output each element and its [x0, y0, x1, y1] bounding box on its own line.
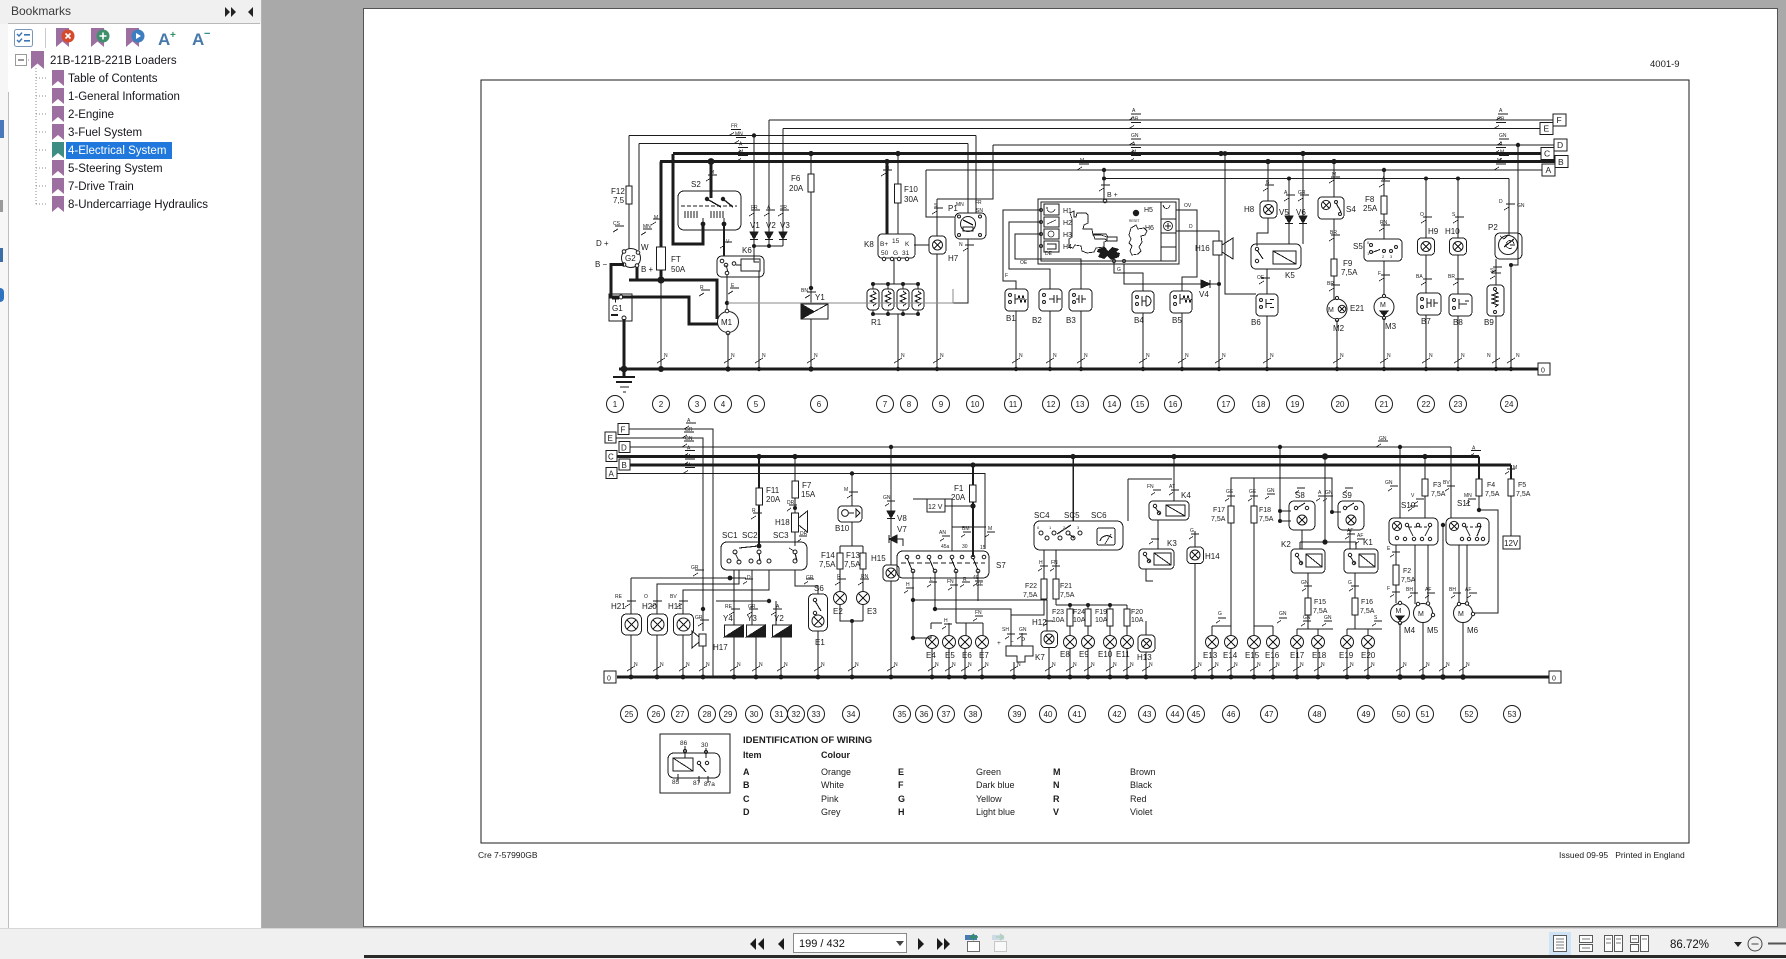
svg-text:SC2: SC2 — [742, 531, 758, 540]
svg-text:Light blue: Light blue — [976, 807, 1015, 817]
fuse F12 — [626, 136, 632, 248]
svg-text:GR: GR — [685, 427, 693, 433]
wire S7 output fan — [904, 571, 1047, 646]
svg-text:7,5A: 7,5A — [1516, 491, 1531, 498]
svg-text:F3: F3 — [1433, 482, 1441, 489]
svg-text:5: 5 — [754, 400, 759, 409]
vertical wire P1 feed from bus MN — [967, 144, 969, 214]
diode V7 — [889, 535, 903, 565]
svg-text:7,5A: 7,5A — [1485, 491, 1500, 498]
fuse F7 15A — [792, 457, 799, 514]
svg-text:B4: B4 — [1134, 316, 1144, 325]
svg-text:Y4: Y4 — [723, 614, 733, 623]
svg-text:8: 8 — [907, 400, 912, 409]
svg-text:GN: GN — [1385, 480, 1393, 486]
svg-text:A: A — [1546, 165, 1552, 175]
svg-text:M: M — [686, 463, 690, 469]
svg-text:M: M — [1080, 158, 1084, 164]
wire code ticks lower buses — [682, 423, 1481, 474]
svg-text:K3: K3 — [1167, 539, 1177, 548]
svg-text:R: R — [1053, 794, 1060, 804]
horn H16 — [1213, 238, 1233, 284]
lamp E3 — [852, 592, 870, 678]
svg-text:V4: V4 — [1199, 290, 1209, 299]
svg-text:20: 20 — [1336, 400, 1345, 409]
svg-text:G: G — [1348, 580, 1352, 586]
svg-text:51: 51 — [1421, 710, 1430, 719]
vertical wire bus A drop to P1 — [926, 170, 955, 217]
svg-text:7,5A: 7,5A — [1431, 491, 1446, 498]
svg-text:FN: FN — [975, 610, 982, 616]
svg-text:GR: GR — [748, 604, 756, 610]
switch S9 — [1338, 488, 1364, 530]
svg-text:2-Engine: 2-Engine — [68, 109, 114, 121]
svg-text:86: 86 — [680, 740, 688, 747]
junction dots lower buses — [756, 445, 1427, 476]
svg-text:6: 6 — [817, 400, 822, 409]
lamp H10 — [1450, 179, 1467, 295]
bus terminator box E (lower) — [605, 432, 616, 443]
svg-text:MN: MN — [643, 224, 651, 230]
svg-text:N: N — [1149, 662, 1153, 668]
wire cluster to B3 — [1015, 234, 1081, 289]
svg-text:K5: K5 — [1285, 271, 1295, 280]
svg-text:L: L — [1010, 637, 1014, 644]
svg-text:Issued 09-95 Printed in Engl: Issued 09-95 Printed in England — [1559, 850, 1685, 860]
sender B9 — [1487, 273, 1504, 369]
svg-text:GN: GN — [1019, 627, 1027, 633]
fuse F6 20A — [808, 154, 814, 305]
svg-text:RE: RE — [725, 604, 733, 610]
svg-text:2: 2 — [659, 400, 664, 409]
svg-text:GR: GR — [1298, 190, 1306, 196]
svg-text:M: M — [1497, 158, 1501, 164]
svg-text:V5: V5 — [1279, 208, 1289, 217]
svg-text:E20: E20 — [1361, 651, 1376, 660]
svg-text:DR: DR — [787, 500, 795, 506]
wire S7 terminal bracket — [913, 499, 995, 551]
wire K6 coil to ground bus — [758, 271, 760, 369]
fuse F13 7,5A — [858, 546, 869, 591]
svg-text:F14: F14 — [821, 551, 835, 560]
wire E4-E7 feeder — [925, 616, 983, 638]
svg-text:41: 41 — [1073, 710, 1082, 719]
wire accessory feed sub-bus — [1104, 178, 1509, 180]
svg-text:M6: M6 — [1467, 626, 1479, 635]
svg-text:F10: F10 — [904, 185, 918, 194]
svg-text:7,5A: 7,5A — [844, 560, 861, 569]
svg-text:M: M — [1132, 150, 1136, 156]
svg-text:Colour: Colour — [821, 750, 850, 760]
svg-text:20A: 20A — [789, 184, 804, 193]
vertical wire bus D right drop — [992, 145, 994, 199]
svg-text:24: 24 — [1505, 400, 1514, 409]
svg-text:FN: FN — [947, 579, 954, 585]
svg-text:F1: F1 — [954, 484, 964, 493]
svg-text:33: 33 — [812, 710, 821, 719]
svg-text:F20: F20 — [1131, 609, 1143, 616]
svg-text:K1: K1 — [1363, 538, 1373, 547]
svg-text:N: N — [1321, 662, 1325, 668]
svg-text:H18: H18 — [775, 518, 790, 527]
lamp H20 — [648, 601, 668, 677]
fuse F15 7,5A — [1302, 573, 1312, 629]
svg-text:E: E — [1544, 124, 1550, 134]
lamp H9 — [1418, 179, 1435, 294]
svg-text:43: 43 — [1143, 710, 1152, 719]
svg-text:GN: GN — [883, 495, 891, 501]
svg-text:F2: F2 — [1403, 568, 1411, 575]
svg-text:DR: DR — [800, 531, 808, 537]
sender B6 — [1256, 294, 1278, 369]
svg-text:N: N — [1487, 353, 1491, 359]
svg-text:N: N — [1340, 353, 1344, 359]
svg-text:C: C — [608, 453, 614, 462]
svg-text:GN: GN — [1303, 615, 1311, 621]
lamp E8 — [1064, 636, 1077, 678]
svg-text:46: 46 — [1227, 710, 1236, 719]
svg-text:E8: E8 — [1060, 650, 1070, 659]
wire cluster to B4 — [1114, 262, 1143, 291]
fuse F22 7,5A — [1011, 550, 1048, 629]
svg-text:44: 44 — [1171, 710, 1180, 719]
gauge module P1 — [953, 213, 986, 303]
svg-text:N: N — [1198, 662, 1202, 668]
svg-text:O: O — [1420, 212, 1424, 218]
svg-text:GN: GN — [1301, 580, 1309, 586]
diode V5 — [1284, 179, 1295, 245]
svg-text:B +: B + — [641, 265, 654, 274]
svg-text:B2: B2 — [1032, 316, 1042, 325]
svg-text:K4: K4 — [1181, 491, 1191, 500]
svg-text:D: D — [743, 807, 750, 817]
svg-text:27: 27 — [676, 710, 685, 719]
connector K7 — [1005, 629, 1033, 677]
bus terminator box D — [1554, 139, 1567, 151]
svg-text:N: N — [737, 662, 741, 668]
lower bus terminator box 0 (left) — [604, 671, 616, 683]
wire thick B+ collector — [629, 267, 717, 319]
tree — [0, 50, 262, 220]
wire S2 left return to bus C (thick) — [673, 154, 703, 244]
svg-text:AF: AF — [1425, 587, 1431, 593]
svg-text:N: N — [1257, 662, 1261, 668]
glow plug unit S2 — [678, 191, 741, 230]
svg-text:V3: V3 — [780, 221, 790, 230]
lamp E5 — [943, 636, 956, 678]
svg-text:FT: FT — [671, 255, 681, 264]
fuse F5 7,5A — [1505, 465, 1515, 536]
svg-text:1: 1 — [613, 400, 618, 409]
wire bus B (lower, thick) — [630, 464, 1511, 467]
svg-text:10A: 10A — [1131, 617, 1144, 624]
svg-text:E5: E5 — [945, 651, 955, 660]
svg-text:5-Steering System: 5-Steering System — [68, 163, 163, 175]
svg-text:H21: H21 — [611, 602, 626, 611]
bookmarks sidebar — [0, 0, 262, 928]
svg-text:11: 11 — [1009, 400, 1018, 409]
svg-text:H: H — [944, 618, 948, 624]
motor M2 with lamp E21 — [1327, 296, 1347, 369]
bus terminator box B — [1555, 156, 1568, 168]
svg-text:N: N — [634, 662, 638, 668]
svg-text:M5: M5 — [1427, 626, 1439, 635]
svg-text:F11: F11 — [766, 486, 780, 495]
bus terminator box C (lower) — [606, 451, 617, 462]
svg-text:87a: 87a — [704, 781, 715, 788]
svg-text:BH: BH — [1449, 587, 1456, 593]
svg-text:GN: GN — [1499, 133, 1507, 139]
svg-text:85: 85 — [672, 779, 680, 786]
lamp H8 — [1257, 162, 1277, 247]
svg-text:H: H — [1039, 560, 1043, 566]
svg-text:SC5: SC5 — [1064, 511, 1080, 520]
solenoid Y3 — [747, 570, 766, 677]
toolbar — [0, 24, 262, 52]
svg-text:AF: AF — [1465, 587, 1471, 593]
circuit number circles 1-24 — [607, 396, 1518, 413]
fuse F20 10A — [1124, 609, 1130, 636]
wire bus E — [783, 128, 1540, 130]
svg-text:F: F — [1005, 273, 1008, 279]
svg-text:N: N — [1461, 353, 1465, 359]
svg-text:N: N — [731, 353, 735, 359]
svg-text:H8: H8 — [1244, 205, 1255, 214]
svg-text:H10: H10 — [1445, 227, 1460, 236]
svg-text:A: A — [1499, 108, 1503, 114]
relay K3 — [1139, 520, 1174, 581]
relay K6 — [717, 256, 764, 277]
svg-text:E7: E7 — [979, 651, 989, 660]
svg-text:V: V — [1053, 807, 1059, 817]
alternator G2 — [613, 144, 652, 268]
svg-text:AF: AF — [1357, 533, 1363, 539]
svg-text:23: 23 — [1454, 400, 1463, 409]
svg-text:M2: M2 — [1333, 324, 1345, 333]
svg-text:26: 26 — [652, 710, 661, 719]
svg-text:7-Drive Train: 7-Drive Train — [68, 181, 134, 193]
wire S2 right to K6 — [723, 225, 725, 256]
svg-text:1-General Information: 1-General Information — [68, 91, 180, 103]
svg-text:SL: SL — [1490, 268, 1496, 274]
svg-text:SR: SR — [780, 205, 787, 211]
svg-text:N: N — [1017, 662, 1021, 668]
svg-text:F: F — [898, 780, 904, 790]
svg-text:45a: 45a — [941, 544, 950, 550]
lamp E4 — [926, 636, 939, 678]
lamp H12 — [1041, 621, 1058, 677]
wire S2 feed (thick) — [710, 162, 713, 199]
svg-text:7: 7 — [883, 400, 888, 409]
svg-text:B +: B + — [1107, 192, 1118, 199]
svg-text:K7: K7 — [1035, 653, 1045, 662]
svg-text:N: N — [1222, 353, 1226, 359]
svg-text:M: M — [1513, 465, 1517, 471]
svg-text:H16: H16 — [1195, 244, 1210, 253]
sender B3 — [1069, 289, 1092, 369]
svg-text:N: N — [1053, 353, 1057, 359]
svg-text:BR: BR — [1327, 281, 1334, 287]
fuse F9 7,5A — [1329, 259, 1340, 299]
sender B8 — [1449, 294, 1472, 369]
svg-text:E: E — [608, 434, 613, 443]
svg-text:MN: MN — [735, 132, 743, 138]
svg-text:BN: BN — [801, 288, 808, 294]
svg-text:M: M — [1458, 611, 1464, 618]
svg-text:7,5A: 7,5A — [1401, 577, 1416, 584]
svg-text:B3: B3 — [1066, 316, 1076, 325]
svg-text:G: G — [1190, 528, 1194, 534]
fuse F19 10A — [1107, 609, 1113, 636]
solenoid Y4 — [725, 570, 744, 677]
svg-text:M: M — [739, 150, 743, 156]
svg-text:7,5A: 7,5A — [1211, 516, 1226, 523]
battery 12V (lower right) — [1503, 536, 1520, 549]
svg-text:M: M — [1328, 307, 1334, 314]
wire battery minus loop — [611, 265, 624, 298]
svg-text:S6: S6 — [814, 584, 824, 593]
fuse F17 7,5A — [1225, 447, 1280, 626]
left collapsed tab strip — [0, 24, 8, 928]
svg-text:50A: 50A — [671, 265, 686, 274]
svg-text:B1: B1 — [1006, 314, 1016, 323]
svg-text:N: N — [952, 662, 956, 668]
fuse F3 7,5A — [1414, 457, 1428, 519]
svg-text:1: 1 — [1049, 525, 1052, 530]
svg-text:BR: BR — [1448, 274, 1455, 280]
wire bus D right segment (GN) — [993, 144, 1554, 146]
svg-text:BA: BA — [1416, 274, 1423, 280]
lamp E2 — [834, 592, 864, 622]
svg-text:CS: CS — [613, 221, 621, 227]
svg-text:E11: E11 — [1116, 650, 1130, 659]
svg-text:RE: RE — [615, 594, 623, 600]
wire bus A (lower) — [617, 474, 985, 550]
svg-text:F: F — [1378, 271, 1381, 277]
svg-text:N: N — [759, 662, 763, 668]
svg-text:H7: H7 — [948, 254, 959, 263]
svg-text:N: N — [1270, 353, 1274, 359]
svg-text:4001-9: 4001-9 — [1650, 59, 1680, 70]
svg-text:V7: V7 — [897, 525, 907, 534]
svg-text:20A: 20A — [766, 495, 781, 504]
wire bus A right segment — [926, 169, 1542, 171]
svg-text:H5: H5 — [1144, 207, 1153, 214]
fuse F21 7,5A — [1050, 550, 1060, 605]
svg-text:M: M — [988, 526, 992, 532]
svg-text:M: M — [885, 166, 889, 172]
svg-text:E4: E4 — [926, 651, 936, 660]
svg-text:GR: GR — [806, 575, 814, 581]
svg-text:G2: G2 — [625, 254, 636, 263]
svg-text:N: N — [1276, 662, 1280, 668]
svg-text:W: W — [641, 243, 649, 252]
svg-text:R1: R1 — [871, 318, 882, 327]
svg-text:GE: GE — [976, 582, 984, 588]
lamp E7 — [976, 636, 989, 678]
instrument cluster module — [1038, 170, 1179, 264]
svg-text:F: F — [621, 426, 626, 435]
status bar — [0, 928, 1786, 959]
junction dots on ground bus — [621, 366, 1514, 373]
svg-text:N: N — [901, 353, 905, 359]
svg-text:N: N — [660, 662, 664, 668]
svg-text:N: N — [1073, 662, 1077, 668]
svg-text:3-Fuel System: 3-Fuel System — [68, 127, 142, 139]
svg-text:White: White — [821, 780, 844, 790]
svg-text:12: 12 — [1047, 400, 1056, 409]
svg-text:GN: GN — [1267, 488, 1275, 494]
svg-text:GN: GN — [685, 436, 693, 442]
svg-text:9: 9 — [939, 400, 944, 409]
svg-text:Brown: Brown — [1130, 767, 1156, 777]
svg-text:GN: GN — [1279, 611, 1287, 617]
svg-text:B5: B5 — [1172, 316, 1182, 325]
svg-text:G: G — [1117, 267, 1121, 273]
lower bus terminator box 0 (right) — [1549, 671, 1561, 683]
svg-text:O: O — [644, 594, 648, 600]
svg-text:52: 52 — [1465, 710, 1474, 719]
svg-text:R: R — [752, 508, 756, 514]
svg-text:Pink: Pink — [821, 794, 839, 804]
svg-text:13: 13 — [1076, 400, 1085, 409]
svg-text:M3: M3 — [1385, 322, 1397, 331]
svg-text:F13: F13 — [846, 551, 860, 560]
svg-text:S9: S9 — [1342, 491, 1352, 500]
svg-text:12V: 12V — [1504, 539, 1519, 548]
svg-text:A: A — [743, 767, 750, 777]
svg-text:29: 29 — [724, 710, 733, 719]
wire cluster to B5 — [1176, 210, 1197, 291]
svg-text:N: N — [1426, 662, 1430, 668]
svg-text:34: 34 — [847, 710, 856, 719]
lamp E17 — [1291, 621, 1334, 677]
wire bus F (top) — [769, 119, 1553, 121]
svg-text:M: M — [710, 170, 714, 176]
svg-text:K2: K2 — [1281, 540, 1291, 549]
bus terminator box E — [1540, 123, 1553, 135]
svg-text:A: A — [739, 142, 743, 148]
lamp H11 — [674, 601, 694, 677]
svg-text:48: 48 — [1313, 710, 1322, 719]
fuse F24 10A — [1085, 609, 1091, 636]
svg-text:F7: F7 — [802, 481, 812, 490]
svg-text:E1: E1 — [815, 638, 825, 647]
svg-text:N: N — [1429, 353, 1433, 359]
lamp E16 — [1267, 618, 1288, 677]
svg-text:31: 31 — [902, 250, 910, 257]
wire S8 feed from F17/F18 riser — [1265, 478, 1341, 521]
svg-text:42: 42 — [1113, 710, 1122, 719]
svg-text:7,5A: 7,5A — [1360, 608, 1375, 615]
svg-text:FN: FN — [1051, 560, 1058, 566]
svg-text:AF: AF — [1347, 528, 1353, 534]
legend table — [743, 750, 1061, 817]
sender B2 — [1039, 289, 1062, 369]
svg-text:AN: AN — [939, 530, 946, 536]
lamp E9 — [1082, 636, 1095, 678]
svg-text:N: N — [821, 662, 825, 668]
svg-text:A: A — [192, 30, 204, 49]
N code ticks on ground drops (top section) — [657, 358, 1515, 363]
svg-text:OV: OV — [1184, 203, 1192, 209]
svg-text:OE: OE — [1020, 260, 1028, 266]
svg-text:N: N — [686, 662, 690, 668]
svg-text:15: 15 — [1136, 400, 1145, 409]
lamp E11 — [1121, 636, 1134, 678]
sender B7 — [1417, 293, 1441, 369]
svg-text:N: N — [1130, 662, 1134, 668]
